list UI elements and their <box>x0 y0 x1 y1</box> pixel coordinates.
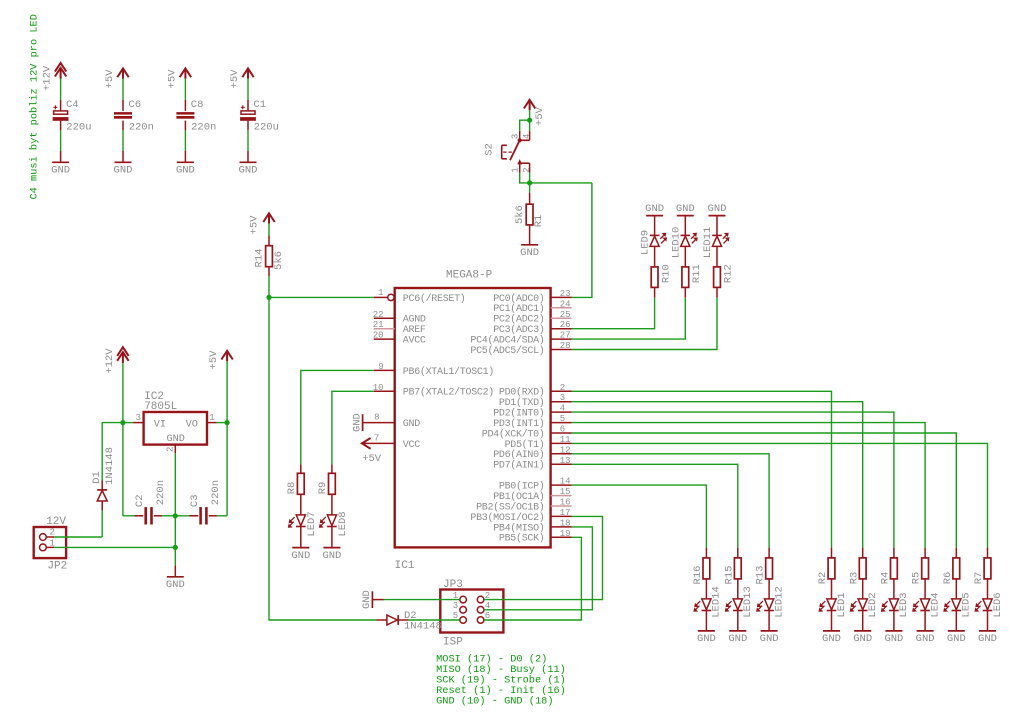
wire <box>217 515 227 517</box>
pin 14 PB0(ICP) <box>551 484 572 486</box>
svg-text:PB7(XTAL2/TOSC2): PB7(XTAL2/TOSC2) <box>403 387 494 399</box>
svg-text:20: 20 <box>373 331 384 341</box>
ground <box>823 630 840 632</box>
ground <box>948 630 965 632</box>
svg-text:PB3(MOSI/OC2): PB3(MOSI/OC2) <box>470 512 544 524</box>
svg-text:GND: GND <box>916 633 935 645</box>
pin 6 <box>477 617 484 624</box>
svg-text:28: 28 <box>560 341 571 351</box>
svg-text:+5V: +5V <box>166 69 178 89</box>
svg-text:PC4(ADC4/SDA): PC4(ADC4/SDA) <box>470 335 544 347</box>
pin 24 PC1(ADC1) <box>551 307 572 309</box>
wire <box>184 78 186 99</box>
resistor R15 <box>737 548 739 558</box>
svg-text:19: 19 <box>560 529 571 539</box>
svg-text:R3: R3 <box>848 572 860 585</box>
svg-text:1: 1 <box>510 167 520 172</box>
svg-text:13: 13 <box>560 456 571 466</box>
svg-text:R4: R4 <box>880 572 892 585</box>
svg-text:LED5: LED5 <box>961 592 973 617</box>
diode D2 <box>377 619 387 621</box>
svg-text:LED4: LED4 <box>929 592 941 617</box>
supply +5V <box>117 69 128 79</box>
wire <box>102 423 123 481</box>
ground <box>115 161 132 163</box>
LED LED11 <box>716 216 718 236</box>
svg-text:R9: R9 <box>317 482 329 495</box>
svg-text:S2: S2 <box>484 143 496 156</box>
wire to pin 23 <box>572 183 592 298</box>
svg-text:LED12: LED12 <box>773 586 785 618</box>
wire JP3 pin4 to pin 18 <box>484 527 593 610</box>
wire pin to R4 <box>572 412 894 547</box>
svg-text:GND: GND <box>978 633 997 645</box>
svg-text:+5V: +5V <box>362 453 382 465</box>
wire <box>122 78 124 99</box>
svg-text:VO: VO <box>186 419 198 430</box>
supply +12V <box>117 347 128 363</box>
ground <box>729 630 746 632</box>
wire +5V rail <box>226 361 228 423</box>
pin 13 PD7(AIN1) <box>551 463 572 465</box>
svg-text:GND: GND <box>322 550 341 562</box>
svg-text:23: 23 <box>560 289 571 299</box>
pin 23 PC0(ADC0) <box>551 296 572 298</box>
svg-text:PD5(T1): PD5(T1) <box>505 439 545 451</box>
svg-text:GND: GND <box>676 203 695 215</box>
svg-text:R16: R16 <box>692 566 704 585</box>
svg-text:LED13: LED13 <box>742 586 754 618</box>
svg-text:GND: GND <box>351 413 363 432</box>
svg-text:LED2: LED2 <box>867 592 879 617</box>
svg-text:JP2: JP2 <box>47 561 67 573</box>
svg-text:10: 10 <box>373 383 384 393</box>
pin 16 PB2(SS/OC1B) <box>551 505 572 507</box>
supply +12V <box>55 63 66 79</box>
ground <box>698 630 715 632</box>
wire <box>572 298 655 329</box>
ground <box>521 244 538 246</box>
wire pin to R3 <box>572 402 863 548</box>
svg-text:PD1(TXD): PD1(TXD) <box>499 397 545 409</box>
wire <box>184 130 186 151</box>
IC IC2 7805L body <box>144 412 207 445</box>
svg-text:PB5(SCK): PB5(SCK) <box>499 533 545 545</box>
wire <box>247 130 249 151</box>
svg-text:8: 8 <box>374 413 379 423</box>
svg-text:LED8: LED8 <box>337 511 349 536</box>
pin 11 PD5(T1) <box>551 442 572 444</box>
svg-text:C8: C8 <box>191 99 204 111</box>
connector JP2 body <box>34 527 66 558</box>
svg-text:+5V: +5V <box>534 106 546 126</box>
pin 4 PD2(INT0) <box>551 411 572 413</box>
svg-text:LED11: LED11 <box>702 227 714 259</box>
svg-text:R7: R7 <box>973 572 985 585</box>
pin 18 PB4(MISO) <box>551 526 572 528</box>
wire JP2 pin2 to D1 <box>54 536 102 538</box>
svg-text:GND: GND <box>166 579 185 591</box>
svg-text:JP3: JP3 <box>443 579 463 591</box>
LED LED10 <box>684 216 686 236</box>
svg-text:1N4148: 1N4148 <box>104 447 116 485</box>
pin 27 PC4(ADC4/SDA) <box>551 338 572 340</box>
svg-text:LED1: LED1 <box>836 592 848 617</box>
svg-text:PD6(AIN0): PD6(AIN0) <box>493 449 544 461</box>
pin 5 <box>460 617 467 624</box>
LED LED3 <box>893 579 895 599</box>
svg-text:GND: GND <box>728 633 747 645</box>
svg-text:27: 27 <box>560 331 571 341</box>
pin 1 <box>460 596 467 603</box>
svg-text:VI: VI <box>154 419 166 430</box>
svg-text:PB6(XTAL1/TOSC1): PB6(XTAL1/TOSC1) <box>403 366 494 378</box>
wire <box>268 223 270 235</box>
svg-text:220n: 220n <box>210 480 222 505</box>
resistor R13 <box>768 548 770 558</box>
svg-text:GND: GND <box>645 203 664 215</box>
svg-text:AREF: AREF <box>403 325 426 336</box>
wire <box>162 515 175 517</box>
svg-text:C4: C4 <box>66 99 79 111</box>
pin 17 PB3(MOSI/OC2) <box>551 515 572 517</box>
resistor R5 <box>924 548 926 558</box>
svg-text:GND: GND <box>167 434 185 445</box>
wire +12V rail <box>122 363 124 423</box>
LED LED5 <box>955 579 957 599</box>
capacitor C8 <box>184 100 186 111</box>
svg-text:GND: GND <box>822 633 841 645</box>
wire pin to R6 <box>572 433 957 548</box>
resistor R1 <box>529 193 531 205</box>
svg-text:12: 12 <box>560 445 571 455</box>
pin 26 PC3(ADC3) <box>551 328 572 330</box>
svg-text:12V: 12V <box>46 516 66 528</box>
pin 12 PD6(AIN0) <box>551 453 572 455</box>
resistor R6 <box>955 548 957 558</box>
wire pin to R5 <box>572 423 926 548</box>
wire rails down to caps <box>122 423 124 516</box>
junction <box>173 545 178 550</box>
svg-text:5: 5 <box>560 414 565 424</box>
capacitor C4 <box>60 100 62 111</box>
ground <box>761 630 778 632</box>
svg-text:PB1(OC1A): PB1(OC1A) <box>493 491 544 503</box>
svg-text:2: 2 <box>560 383 565 393</box>
wire <box>520 120 530 131</box>
wire pin 9 to R8 <box>301 370 374 464</box>
svg-text:5k6: 5k6 <box>514 205 526 224</box>
junction <box>225 420 230 425</box>
resistor R16 <box>705 548 707 558</box>
ground <box>371 591 373 608</box>
ground <box>167 576 184 578</box>
svg-text:PB4(MISO): PB4(MISO) <box>493 522 544 534</box>
svg-text:R14: R14 <box>253 249 265 268</box>
ground <box>52 161 69 163</box>
svg-text:PC1(ADC1): PC1(ADC1) <box>493 303 544 315</box>
svg-text:1N4148: 1N4148 <box>404 621 442 633</box>
wire <box>60 130 62 151</box>
pin 1 PC6(/RESET) <box>374 296 388 298</box>
svg-text:R10: R10 <box>660 264 672 283</box>
svg-text:2: 2 <box>50 527 55 537</box>
svg-text:GND: GND <box>853 633 872 645</box>
svg-text:220n: 220n <box>129 121 154 133</box>
LED LED4 <box>924 579 926 599</box>
pin 5 PD3(INT1) <box>551 422 572 424</box>
pin 3 PD1(TXD) <box>551 401 572 403</box>
capacitor C2 <box>135 515 144 517</box>
svg-text:PB2(SS/OC1B): PB2(SS/OC1B) <box>476 501 544 513</box>
wire <box>529 183 531 193</box>
wire JP2 pin1 to ground <box>54 546 175 548</box>
ground <box>979 630 996 632</box>
svg-text:GND: GND <box>884 633 903 645</box>
svg-text:GND: GND <box>697 633 716 645</box>
junction <box>527 180 532 185</box>
junction <box>120 420 125 425</box>
svg-text:25: 25 <box>560 310 571 320</box>
svg-text:+5V: +5V <box>208 350 220 370</box>
svg-text:3: 3 <box>510 134 520 139</box>
svg-text:4: 4 <box>560 404 565 414</box>
wire JP3 pin6 to pin 19 <box>484 537 582 620</box>
resistor R12 <box>716 246 718 267</box>
pin 22 AGND <box>374 317 395 319</box>
svg-text:AGND: AGND <box>403 315 426 326</box>
junction <box>527 118 532 123</box>
pin 28 PC5(ADC5/SCL) <box>551 349 572 351</box>
svg-text:GND: GND <box>239 165 258 177</box>
pin 19 PB5(SCK) <box>551 536 572 538</box>
svg-text:2: 2 <box>522 167 532 172</box>
LED LED12 <box>768 579 770 599</box>
svg-text:220n: 220n <box>155 480 167 505</box>
wire <box>572 298 718 350</box>
svg-text:VCC: VCC <box>403 440 420 451</box>
svg-text:GND: GND <box>114 165 133 177</box>
svg-text:GND: GND <box>51 165 70 177</box>
wire <box>529 173 531 183</box>
svg-text:PC2(ADC2): PC2(ADC2) <box>493 314 544 326</box>
pin 20 AVCC <box>374 338 395 340</box>
svg-text:C4 musi byt pobliz 12V pro LED: C4 musi byt pobliz 12V pro LED <box>28 14 40 199</box>
svg-text:1: 1 <box>378 288 383 298</box>
diode D1 <box>101 511 103 538</box>
svg-text:GND: GND <box>708 203 727 215</box>
svg-text:PD0(RXD): PD0(RXD) <box>499 387 545 399</box>
wire <box>268 276 270 297</box>
supply +5V <box>221 351 232 361</box>
wire pin to R13 <box>572 454 770 548</box>
wire D2 to JP3 pin5 <box>409 619 460 621</box>
svg-text:6: 6 <box>560 425 565 435</box>
ground <box>240 161 257 163</box>
pin 2 PD0(RXD) <box>551 390 572 392</box>
pin 25 PC2(ADC2) <box>551 317 572 319</box>
ground <box>917 630 934 632</box>
pin 2 <box>40 534 47 541</box>
svg-text:PD2(INT0): PD2(INT0) <box>493 408 544 420</box>
wire <box>572 298 686 339</box>
junction <box>266 295 271 300</box>
svg-text:4: 4 <box>522 134 532 139</box>
ground <box>323 547 340 549</box>
svg-text:GND: GND <box>291 550 310 562</box>
svg-text:GND: GND <box>176 165 195 177</box>
supply +5V <box>242 69 253 79</box>
svg-text:22: 22 <box>373 310 384 320</box>
resistor R4 <box>893 548 895 558</box>
svg-text:LED3: LED3 <box>898 592 910 617</box>
svg-text:PC3(ADC3): PC3(ADC3) <box>493 324 544 336</box>
capacitor C1 <box>247 100 249 111</box>
svg-text:LED10: LED10 <box>670 227 682 259</box>
svg-text:220n: 220n <box>191 121 216 133</box>
resistor R9 <box>331 464 333 473</box>
ground <box>292 547 309 549</box>
wire <box>247 78 249 99</box>
svg-text:C2: C2 <box>134 494 146 507</box>
switch S2 <box>519 131 521 140</box>
capacitor C6 <box>122 100 124 111</box>
LED LED1 <box>831 579 833 599</box>
svg-text:PC6(/RESET): PC6(/RESET) <box>403 293 466 305</box>
svg-text:2: 2 <box>166 447 176 452</box>
svg-text:18: 18 <box>560 518 571 528</box>
wire pin to R2 <box>572 391 832 547</box>
svg-text:PC0(ADC0): PC0(ADC0) <box>493 293 544 305</box>
wire <box>122 130 124 151</box>
resistor R11 <box>684 246 686 267</box>
wire ground to JP3 pin1 <box>384 599 460 601</box>
pin 10 PB7(XTAL2/TOSC2) <box>374 390 395 392</box>
svg-text:+5V: +5V <box>104 69 116 89</box>
wire <box>174 453 176 516</box>
pin 8 GND with ground bar <box>362 414 364 431</box>
resistor R2 <box>831 548 833 558</box>
svg-text:220u: 220u <box>66 121 91 133</box>
resistor R3 <box>862 548 864 558</box>
capacitor C3 <box>175 515 198 517</box>
svg-text:+5V: +5V <box>249 215 261 235</box>
wire <box>529 120 531 131</box>
svg-text:15: 15 <box>560 487 571 497</box>
svg-text:26: 26 <box>560 320 571 330</box>
svg-text:PD3(INT1): PD3(INT1) <box>493 418 544 430</box>
svg-text:LED14: LED14 <box>711 586 723 618</box>
LED LED13 <box>737 579 739 599</box>
supply +5V <box>524 100 535 110</box>
svg-text:R8: R8 <box>286 482 298 495</box>
svg-text:GND: GND <box>947 633 966 645</box>
LED LED14 <box>705 579 707 599</box>
svg-text:220u: 220u <box>254 121 279 133</box>
svg-text:+12V: +12V <box>42 65 54 91</box>
wire pin to R7 <box>572 443 988 547</box>
svg-text:C3: C3 <box>189 494 201 507</box>
svg-text:R6: R6 <box>942 572 954 585</box>
resistor R14 <box>268 236 270 246</box>
wire <box>520 173 592 183</box>
svg-text:GND: GND <box>520 247 539 259</box>
ground <box>885 630 902 632</box>
svg-text:16: 16 <box>560 498 571 508</box>
pin 1 <box>207 422 217 424</box>
ground <box>177 161 194 163</box>
supply +5V <box>263 213 274 223</box>
svg-text:5k6: 5k6 <box>273 251 285 270</box>
svg-text:R5: R5 <box>911 572 923 585</box>
svg-text:9: 9 <box>378 362 383 372</box>
svg-text:D1: D1 <box>91 471 103 484</box>
svg-text:GND: GND <box>403 419 420 430</box>
pin 6 PD4(XCK/T0) <box>551 432 572 434</box>
junction <box>173 513 178 518</box>
svg-text:3: 3 <box>560 393 565 403</box>
svg-text:PB0(ICP): PB0(ICP) <box>499 481 545 493</box>
LED LED6 <box>987 579 989 599</box>
LED LED2 <box>862 579 864 599</box>
ground <box>854 630 871 632</box>
wire JP3 pin2 to pin 17 <box>484 516 603 599</box>
svg-text:PD4(XCK/T0): PD4(XCK/T0) <box>482 428 545 440</box>
wire to D2 <box>269 297 377 620</box>
svg-text:11: 11 <box>560 435 571 445</box>
LED LED8 <box>331 494 333 515</box>
svg-text:R2: R2 <box>817 572 829 585</box>
wire <box>529 110 531 120</box>
wire to ground <box>174 516 176 548</box>
svg-text:R1: R1 <box>533 215 545 228</box>
svg-text:PC5(ADC5/SCL): PC5(ADC5/SCL) <box>470 345 544 357</box>
resistor R8 <box>300 464 302 473</box>
resistor R10 <box>654 246 656 267</box>
svg-text:GND: GND <box>760 633 779 645</box>
IC IC1 MEGA8-P body <box>395 288 551 547</box>
pin 21 AREF <box>374 328 395 330</box>
svg-text:IC1: IC1 <box>395 560 415 572</box>
svg-text:PD7(AIN1): PD7(AIN1) <box>493 460 544 472</box>
svg-text:LED9: LED9 <box>640 230 652 255</box>
svg-text:MEGA8-P: MEGA8-P <box>446 270 493 282</box>
LED LED9 <box>654 216 656 236</box>
connector JP3 body <box>440 590 503 633</box>
wire pin 10 to R9 <box>332 391 374 464</box>
svg-text:ISP: ISP <box>443 637 463 649</box>
svg-text:3: 3 <box>453 601 458 611</box>
svg-text:7: 7 <box>374 433 379 443</box>
pin 7 VCC with +5V arrow <box>362 438 371 449</box>
svg-text:24: 24 <box>560 299 571 309</box>
svg-text:1: 1 <box>209 413 214 423</box>
svg-text:7805L: 7805L <box>144 401 177 413</box>
LED LED7 <box>300 494 302 515</box>
svg-text:R11: R11 <box>691 264 703 283</box>
svg-text:21: 21 <box>373 320 384 330</box>
wire <box>123 515 135 517</box>
wire <box>60 78 62 99</box>
svg-text:GND (10) - GND (18): GND (10) - GND (18) <box>436 695 553 707</box>
svg-text:3: 3 <box>136 413 141 423</box>
pin 2 <box>174 445 176 454</box>
svg-text:AVCC: AVCC <box>403 336 426 347</box>
pin 3 <box>460 607 467 614</box>
svg-text:R12: R12 <box>723 264 735 283</box>
pin 9 PB6(XTAL1/TOSC1) <box>374 369 395 371</box>
svg-text:C1: C1 <box>253 99 266 111</box>
